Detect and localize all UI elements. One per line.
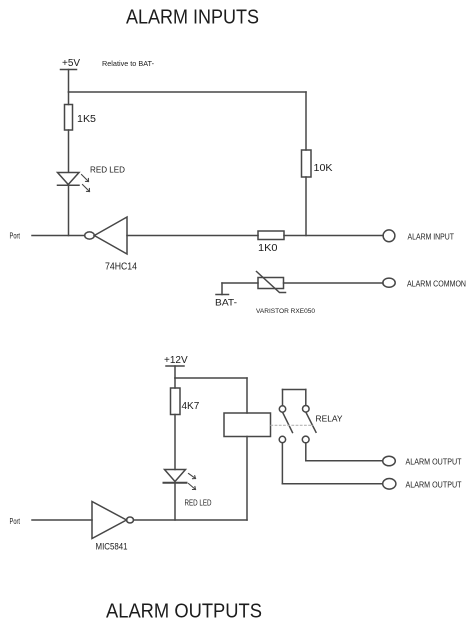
terminal ALARM OUTPUT 2 <box>383 479 462 490</box>
wire <box>222 282 258 284</box>
resistor 1K0 <box>258 231 284 254</box>
wire top rail <box>69 91 307 93</box>
terminal ALARM OUTPUT 1 <box>383 456 462 466</box>
LED D2 red <box>164 470 212 508</box>
terminal BAT- <box>215 283 237 308</box>
wire <box>174 484 176 521</box>
wire 10K branch <box>305 92 307 150</box>
wire <box>282 483 382 485</box>
wire <box>32 235 85 237</box>
svg-text:Port: Port <box>10 232 21 241</box>
wire <box>281 443 283 484</box>
svg-text:ALARM OUTPUT: ALARM OUTPUT <box>406 457 462 467</box>
wire <box>306 460 383 462</box>
wire <box>174 415 176 470</box>
svg-text:ALARM INPUTS: ALARM INPUTS <box>126 7 259 29</box>
svg-text:74HC14: 74HC14 <box>105 262 137 273</box>
wire <box>305 177 307 236</box>
wire <box>175 377 247 379</box>
svg-text:1K5: 1K5 <box>77 114 96 125</box>
relay contacts <box>279 390 316 443</box>
svg-text:VARISTOR RXE050: VARISTOR RXE050 <box>256 308 315 315</box>
svg-text:+5V: +5V <box>62 58 80 69</box>
resistor 4K7 <box>171 388 200 415</box>
svg-text:10K: 10K <box>314 163 333 174</box>
svg-text:ALARM OUTPUTS: ALARM OUTPUTS <box>106 601 262 623</box>
wire <box>305 443 307 461</box>
svg-text:ALARM OUTPUT: ALARM OUTPUT <box>406 480 462 490</box>
terminal ALARM INPUT <box>383 230 454 242</box>
resistor 1K5 <box>65 105 97 131</box>
svg-text:Port: Port <box>10 517 21 526</box>
svg-text:BAT-: BAT- <box>215 298 237 308</box>
wire <box>32 519 92 521</box>
wire <box>174 378 176 388</box>
svg-text:ALARM INPUT: ALARM INPUT <box>408 232 455 242</box>
svg-text:1K0: 1K0 <box>258 243 278 254</box>
wire <box>246 437 248 521</box>
wire <box>68 186 70 236</box>
wire <box>68 92 70 105</box>
resistor 10K <box>302 150 333 177</box>
terminal ALARM COMMON <box>383 278 466 288</box>
svg-text:RELAY: RELAY <box>316 414 343 424</box>
svg-text:RED LED: RED LED <box>185 499 212 508</box>
buffer U2 MIC5841 <box>92 502 134 552</box>
svg-text:ALARM COMMON: ALARM COMMON <box>407 279 466 289</box>
wire <box>284 282 384 284</box>
varistor RV1 RXE050 <box>256 272 315 316</box>
wire <box>246 378 248 413</box>
svg-text:RED LED: RED LED <box>90 165 125 175</box>
power +12V <box>164 355 188 378</box>
svg-text:MIC5841: MIC5841 <box>96 542 128 552</box>
svg-text:+12V: +12V <box>164 355 188 366</box>
wire <box>284 235 383 237</box>
wire <box>127 235 258 237</box>
power +5V <box>61 58 81 92</box>
relay mechanical link (dotted) <box>271 424 313 426</box>
svg-text:4K7: 4K7 <box>182 401 200 412</box>
wire <box>134 519 248 521</box>
wire <box>68 130 70 172</box>
inverter U1 74HC14 <box>85 217 138 273</box>
relay K1 coil <box>224 413 271 437</box>
svg-text:Relative to BAT-: Relative to BAT- <box>102 59 154 68</box>
LED D1 red <box>58 165 126 192</box>
